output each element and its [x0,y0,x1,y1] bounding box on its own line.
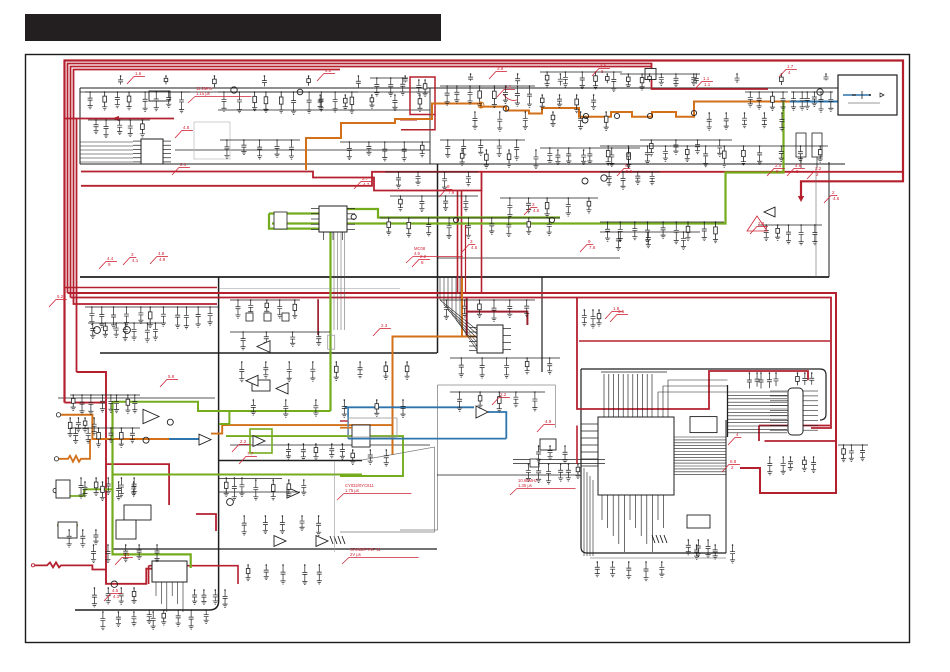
svg-text:4.4: 4.4 [107,256,114,261]
svg-text:6.8: 6.8 [730,459,737,464]
svg-text:2.2: 2.2 [240,439,247,444]
svg-text:3.6: 3.6 [618,309,625,314]
svg-text:4.9: 4.9 [545,419,552,424]
svg-text:3.5: 3.5 [600,63,607,68]
svg-text:1.75 μs: 1.75 μs [345,488,359,493]
svg-text:4.7: 4.7 [363,182,370,187]
svg-text:4.5: 4.5 [112,588,119,593]
svg-text:5.2: 5.2 [57,294,64,299]
svg-text:4.6: 4.6 [833,196,840,201]
svg-text:2.4: 2.4 [775,163,782,168]
svg-text:4.5: 4.5 [533,208,540,213]
svg-text:4.8: 4.8 [183,125,190,130]
svg-text:1.35 μs: 1.35 μs [518,483,532,488]
svg-text:1.15 μs: 1.15 μs [196,91,210,96]
svg-text:2.8: 2.8 [758,221,765,226]
svg-text:3.2: 3.2 [815,166,822,171]
svg-text:1.6: 1.6 [135,71,142,76]
svg-text:2V μs: 2V μs [350,552,361,557]
svg-text:4.9: 4.9 [159,257,166,262]
svg-text:5.8: 5.8 [168,374,175,379]
svg-text:2.3: 2.3 [381,323,388,328]
svg-text:4.5: 4.5 [471,245,478,250]
svg-text:2.2: 2.2 [420,254,427,259]
svg-text:1.1: 1.1 [703,76,710,81]
svg-text:5.9: 5.9 [626,169,633,174]
svg-text:2.7: 2.7 [362,176,369,181]
svg-text:4.1: 4.1 [132,258,139,263]
svg-text:1.3: 1.3 [123,552,130,557]
svg-text:7.7: 7.7 [247,451,254,456]
svg-text:7.8: 7.8 [589,245,596,250]
svg-text:4.6: 4.6 [795,163,802,168]
svg-text:7.9: 7.9 [448,190,455,195]
svg-text:1.1: 1.1 [704,82,711,87]
svg-text:4.2: 4.2 [325,68,332,73]
svg-text:4.1: 4.1 [113,594,120,599]
svg-text:4.8: 4.8 [158,251,165,256]
svg-text:2.2: 2.2 [500,392,507,397]
svg-text:3.9: 3.9 [497,66,504,71]
svg-text:2.1: 2.1 [180,162,187,167]
svg-text:1.7: 1.7 [787,64,794,69]
